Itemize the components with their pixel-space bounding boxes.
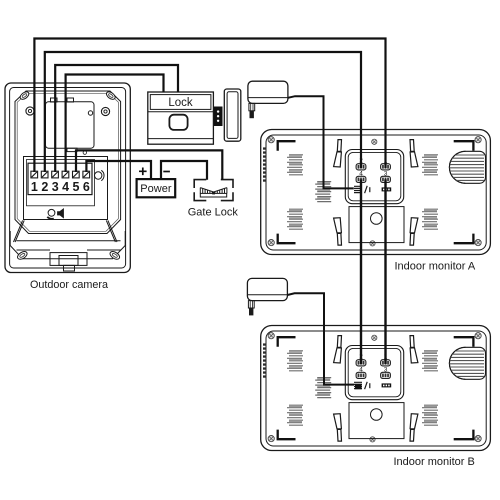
- wire terminal5 to gate lock: [76, 150, 222, 179]
- wire terminal3 to lock: [55, 65, 178, 172]
- wire terminal4 to lock: [66, 75, 164, 173]
- lock body: [148, 92, 214, 144]
- mounting bracket top-left: [278, 141, 296, 151]
- power adapter B: [247, 278, 287, 315]
- svg-text:Gate Lock: Gate Lock: [188, 207, 239, 219]
- lock armature plate: [224, 89, 241, 141]
- gate lock dashed box: [194, 180, 233, 201]
- camera terminal surround panels: [24, 151, 108, 220]
- vents: [287, 155, 303, 175]
- mounting bracket bottom-left: [278, 234, 296, 244]
- outdoor camera body: [5, 83, 130, 273]
- camera bottom oval left: [16, 250, 28, 261]
- camera corner oval screw top-left: [19, 90, 30, 100]
- monitor shell: [261, 130, 491, 255]
- camera corner oval screw top-right: [105, 90, 116, 100]
- svg-text:Power: Power: [140, 183, 172, 195]
- wire monitorA port3 to monitorB port1: [384, 179, 386, 364]
- plus sign: [139, 168, 147, 176]
- camera bottom oval right: [109, 250, 121, 261]
- lower panel: [349, 207, 404, 243]
- wire monitorA port4 to monitorB port2: [360, 179, 362, 364]
- mounting bracket top-right: [454, 141, 474, 151]
- dip switch: [354, 186, 370, 193]
- svg-text:3: 3: [52, 180, 59, 194]
- wall hook top-right: [410, 140, 418, 167]
- power adapter A: [248, 81, 288, 118]
- monitor corner screws: [268, 137, 274, 143]
- adapter B cord: [287, 293, 354, 384]
- svg-text:Outdoor camera: Outdoor camera: [30, 279, 108, 291]
- wall hook bottom-right: [410, 218, 418, 245]
- monitor center screws: [372, 139, 377, 144]
- speaker: [448, 151, 486, 183]
- monitor B cord terminal blob: [355, 384, 362, 389]
- svg-text:Indoor monitor A: Indoor monitor A: [395, 260, 476, 272]
- svg-text:2: 2: [41, 180, 48, 194]
- camera bottom corner braces: [14, 220, 118, 242]
- wire terminal2 to monitorA port2: [45, 52, 361, 172]
- side connector strip: [263, 147, 266, 181]
- camera screw circle left: [26, 107, 34, 115]
- terminal screws 1-6: [31, 171, 90, 178]
- adapter A cord: [288, 96, 354, 188]
- camera lens circle beside block: [95, 170, 105, 180]
- svg-text:1: 1: [31, 180, 38, 194]
- wall hook top-left: [334, 140, 342, 167]
- lock side connector: [214, 107, 223, 127]
- port labels: [359, 158, 388, 178]
- svg-text:4: 4: [62, 180, 69, 194]
- port 1: [381, 164, 391, 170]
- wire terminal6 to power plus: [86, 161, 151, 179]
- port 4: [356, 176, 366, 182]
- power box: [137, 179, 176, 197]
- gate lock striker plate: [200, 188, 227, 197]
- port 3: [381, 176, 391, 182]
- lower panel circle: [371, 213, 383, 225]
- terminal block: [28, 163, 92, 194]
- svg-text:5: 5: [73, 180, 80, 194]
- camera small circle and speaker icon: [47, 209, 63, 219]
- indoor monitor B: [261, 326, 491, 451]
- wall hook bottom-left: [334, 218, 342, 245]
- svg-text:Lock: Lock: [168, 97, 193, 109]
- wire power minus to gate lock: [161, 161, 207, 180]
- indoor monitor A: [261, 130, 491, 255]
- camera module plate: [46, 98, 95, 152]
- camera screw circle right: [101, 107, 109, 115]
- svg-text:6: 6: [83, 180, 90, 194]
- camera bottom tray: [10, 231, 125, 271]
- aux connector: [382, 187, 392, 191]
- port 2: [356, 164, 366, 170]
- connection panel: [345, 150, 403, 204]
- terminal numbers 1 2 3 4 5 6: [31, 180, 90, 194]
- wire terminal1 to monitorA port1: [34, 39, 385, 173]
- mounting bracket bottom-right: [454, 234, 474, 244]
- svg-text:Indoor monitor B: Indoor monitor B: [394, 456, 475, 468]
- minus sign: [163, 171, 170, 173]
